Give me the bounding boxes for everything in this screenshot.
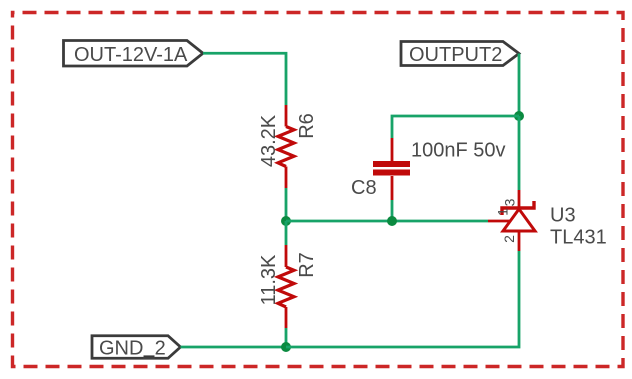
svg-text:2: 2 [501, 235, 517, 243]
wire [518, 116, 521, 190]
svg-text:OUTPUT2: OUTPUT2 [409, 44, 502, 66]
svg-text:GND_2: GND_2 [99, 337, 166, 359]
net label OUTPUT2 [401, 42, 519, 67]
svg-text:OUT-12V-1A: OUT-12V-1A [74, 44, 188, 66]
svg-text:100nF 50v: 100nF 50v [411, 140, 506, 162]
capacitor C8 [373, 138, 410, 200]
wire [286, 251, 519, 347]
svg-text:TL431: TL431 [550, 227, 607, 249]
svg-text:R7: R7 [296, 252, 318, 278]
svg-text:U3: U3 [550, 205, 576, 227]
net label GND_2 [92, 336, 181, 360]
resistor R7 [278, 245, 294, 328]
svg-text:3: 3 [502, 198, 518, 206]
wire [391, 200, 394, 221]
wire [285, 328, 288, 347]
wire [181, 346, 287, 349]
svg-text:43.2K: 43.2K [258, 114, 280, 167]
wire [203, 53, 286, 105]
net label OUT-12V-1A [64, 41, 204, 67]
wire [285, 188, 288, 221]
svg-text:C8: C8 [351, 177, 377, 199]
resistor R6 [278, 105, 294, 188]
wire [392, 116, 519, 138]
wire [518, 54, 521, 117]
junction [281, 342, 291, 352]
wire [286, 220, 488, 223]
shunt regulator U3 TL431 [488, 190, 535, 251]
wire [285, 221, 288, 245]
svg-text:1: 1 [495, 208, 511, 216]
svg-text:11.3K: 11.3K [258, 254, 280, 305]
junction [281, 216, 291, 226]
svg-text:R6: R6 [296, 113, 318, 139]
junction [514, 111, 524, 121]
junction [387, 216, 397, 226]
